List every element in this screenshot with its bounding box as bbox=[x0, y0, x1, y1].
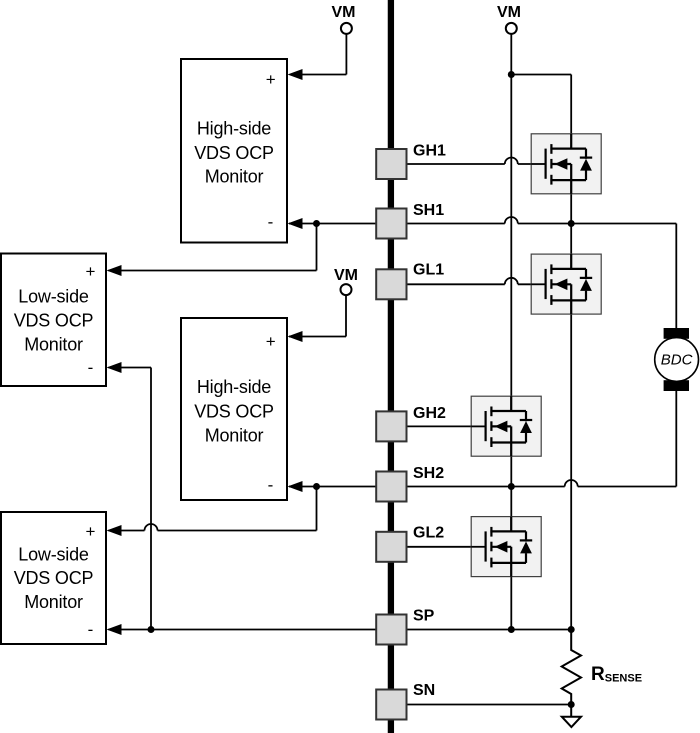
svg-text:Low-side: Low-side bbox=[18, 545, 89, 565]
svg-text:+: + bbox=[86, 522, 96, 541]
svg-text:Monitor: Monitor bbox=[24, 335, 83, 355]
svg-text:VM: VM bbox=[334, 267, 358, 284]
svg-text:GH1: GH1 bbox=[413, 143, 446, 160]
svg-text:+: + bbox=[266, 70, 276, 89]
svg-text:BDC: BDC bbox=[661, 352, 693, 369]
svg-text:+: + bbox=[266, 332, 276, 351]
svg-text:GH2: GH2 bbox=[413, 405, 446, 422]
svg-text:SH2: SH2 bbox=[413, 465, 444, 482]
svg-text:VM: VM bbox=[497, 4, 521, 21]
svg-text:VDS OCP: VDS OCP bbox=[194, 402, 274, 422]
svg-text:+: + bbox=[86, 262, 96, 281]
svg-text:SH1: SH1 bbox=[413, 202, 444, 219]
svg-text:SN: SN bbox=[413, 682, 435, 699]
svg-text:Monitor: Monitor bbox=[24, 592, 83, 612]
svg-text:VM: VM bbox=[332, 4, 356, 21]
svg-text:VDS OCP: VDS OCP bbox=[194, 143, 274, 163]
svg-text:-: - bbox=[88, 358, 94, 377]
svg-text:VDS OCP: VDS OCP bbox=[14, 311, 94, 331]
svg-text:High-side: High-side bbox=[197, 377, 271, 397]
svg-text:GL2: GL2 bbox=[413, 525, 444, 542]
svg-text:-: - bbox=[88, 620, 94, 639]
svg-text:Low-side: Low-side bbox=[18, 287, 89, 307]
svg-text:-: - bbox=[268, 212, 274, 231]
svg-text:Monitor: Monitor bbox=[205, 167, 264, 187]
svg-text:GL1: GL1 bbox=[413, 262, 444, 279]
svg-text:SP: SP bbox=[413, 608, 435, 625]
svg-text:VDS OCP: VDS OCP bbox=[14, 568, 94, 588]
svg-text:High-side: High-side bbox=[197, 119, 271, 139]
svg-text:-: - bbox=[268, 475, 274, 494]
svg-text:Monitor: Monitor bbox=[205, 426, 264, 446]
